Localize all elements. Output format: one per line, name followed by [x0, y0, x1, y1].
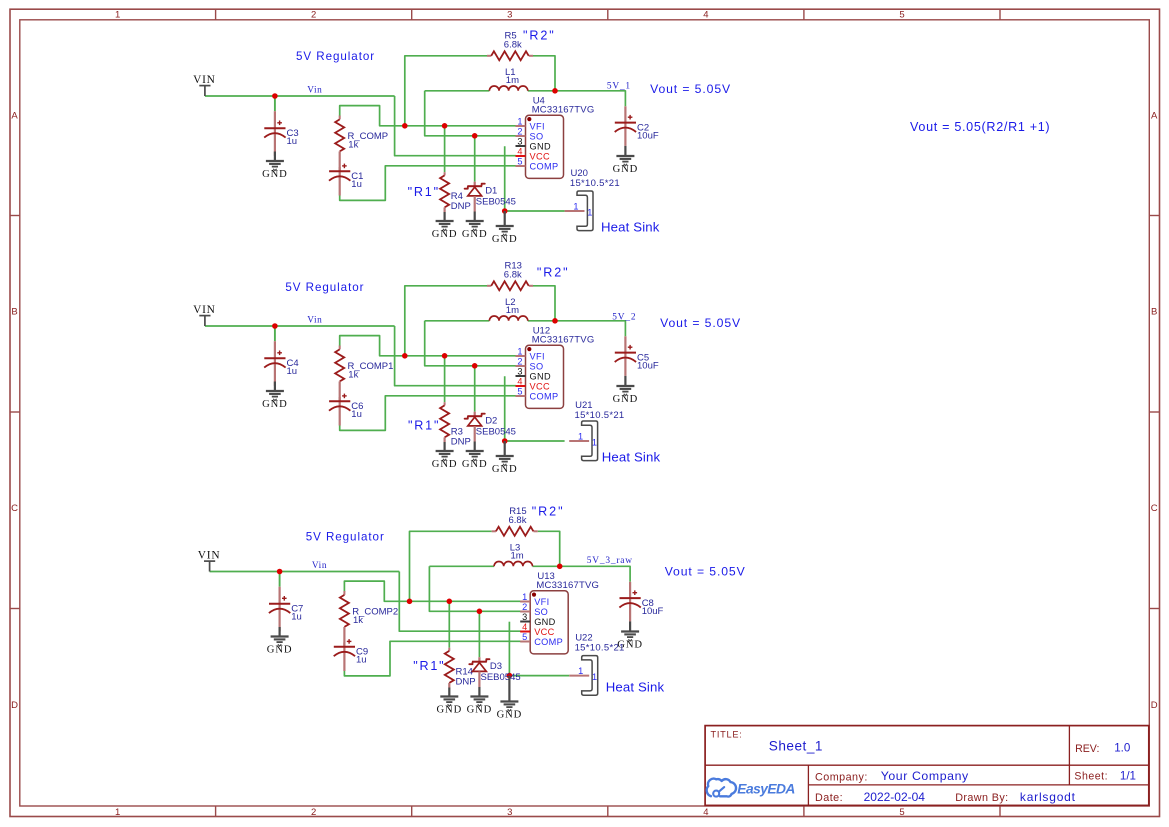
svg-text:5V_1: 5V_1: [607, 82, 631, 92]
svg-text:Vin: Vin: [312, 561, 327, 571]
svg-text:Vout = 5.05(R2/R1 +1): Vout = 5.05(R2/R1 +1): [910, 120, 1050, 134]
svg-text:1/1: 1/1: [1120, 769, 1136, 782]
svg-text:Vout = 5.05V: Vout = 5.05V: [665, 565, 746, 579]
svg-text:VFI: VFI: [530, 121, 545, 131]
svg-text:COMP: COMP: [530, 391, 559, 401]
svg-text:10uF: 10uF: [642, 606, 664, 617]
svg-text:4: 4: [703, 10, 708, 21]
svg-text:GND: GND: [436, 704, 462, 715]
svg-text:GND: GND: [432, 459, 458, 470]
svg-text:5V Regulator: 5V Regulator: [285, 281, 364, 294]
svg-text:GND: GND: [467, 704, 493, 715]
svg-text:1: 1: [587, 208, 592, 218]
svg-text:GND: GND: [432, 229, 458, 240]
svg-text:C: C: [11, 503, 18, 514]
svg-text:GND: GND: [462, 459, 488, 470]
svg-text:1m: 1m: [506, 305, 519, 316]
svg-text:SO: SO: [534, 607, 548, 617]
svg-text:GND: GND: [530, 141, 551, 151]
svg-text:1k: 1k: [348, 370, 358, 381]
svg-text:D: D: [1151, 700, 1158, 711]
svg-text:1u: 1u: [356, 655, 367, 666]
svg-text:1: 1: [578, 666, 583, 676]
svg-text:VFI: VFI: [534, 597, 549, 607]
svg-text:2: 2: [517, 356, 522, 366]
svg-text:DNP: DNP: [456, 676, 476, 687]
svg-text:3: 3: [507, 807, 512, 818]
svg-text:MC33167TVG: MC33167TVG: [536, 580, 599, 591]
svg-text:D2: D2: [485, 416, 497, 427]
svg-text:"R1": "R1": [408, 185, 440, 199]
svg-text:"R2": "R2": [532, 505, 565, 519]
svg-text:Heat Sink: Heat Sink: [602, 450, 661, 465]
svg-text:GND: GND: [492, 464, 518, 475]
svg-text:5: 5: [517, 156, 522, 166]
svg-text:6.8k: 6.8k: [504, 40, 522, 51]
svg-text:1u: 1u: [291, 612, 302, 623]
svg-text:VIN: VIN: [193, 304, 216, 316]
svg-text:5: 5: [522, 632, 527, 642]
svg-text:1: 1: [592, 672, 597, 682]
svg-text:VCC: VCC: [530, 151, 550, 161]
svg-text:3: 3: [507, 10, 512, 21]
svg-text:DNP: DNP: [451, 201, 471, 212]
svg-text:Your Company: Your Company: [881, 769, 969, 783]
svg-text:GND: GND: [462, 229, 488, 240]
svg-text:3: 3: [522, 612, 527, 622]
svg-text:5V_2: 5V_2: [612, 312, 636, 322]
svg-text:GND: GND: [262, 169, 288, 180]
svg-text:1: 1: [517, 116, 522, 126]
svg-text:Heat Sink: Heat Sink: [606, 680, 665, 695]
svg-text:GND: GND: [492, 234, 518, 245]
svg-text:Vout = 5.05V: Vout = 5.05V: [650, 82, 731, 96]
svg-text:karlsgodt: karlsgodt: [1020, 790, 1076, 804]
svg-text:4: 4: [703, 807, 708, 818]
svg-text:"R1": "R1": [408, 419, 440, 433]
svg-text:MC33167TVG: MC33167TVG: [532, 105, 595, 116]
svg-text:1u: 1u: [287, 136, 298, 147]
svg-text:6.8k: 6.8k: [504, 270, 522, 281]
svg-text:15*10.5*21: 15*10.5*21: [575, 643, 625, 654]
svg-text:2: 2: [522, 602, 527, 612]
svg-text:1: 1: [115, 807, 120, 818]
svg-text:C: C: [1151, 503, 1158, 514]
svg-text:Drawn By:: Drawn By:: [955, 792, 1008, 804]
svg-text:GND: GND: [262, 399, 288, 410]
svg-text:1: 1: [115, 10, 120, 21]
svg-text:Vin: Vin: [307, 315, 322, 325]
svg-text:COMP: COMP: [530, 161, 559, 171]
svg-text:VIN: VIN: [193, 74, 216, 86]
svg-text:REV:: REV:: [1075, 743, 1099, 755]
svg-text:SO: SO: [530, 361, 544, 371]
svg-text:D1: D1: [485, 186, 497, 197]
svg-text:GND: GND: [613, 164, 639, 175]
svg-text:GND: GND: [613, 394, 639, 405]
svg-text:2: 2: [517, 126, 522, 136]
svg-text:1u: 1u: [287, 366, 298, 377]
svg-text:5V_3_raw: 5V_3_raw: [587, 556, 633, 566]
svg-text:1u: 1u: [351, 409, 362, 420]
svg-text:GND: GND: [497, 709, 523, 720]
svg-text:Vin: Vin: [307, 85, 322, 95]
svg-text:Heat Sink: Heat Sink: [601, 220, 660, 235]
svg-text:VFI: VFI: [530, 351, 545, 361]
svg-text:SO: SO: [530, 131, 544, 141]
svg-text:1: 1: [522, 592, 527, 602]
svg-text:GND: GND: [267, 644, 293, 655]
svg-text:4: 4: [517, 146, 522, 156]
svg-text:5: 5: [517, 386, 522, 396]
svg-text:D3: D3: [490, 661, 502, 672]
svg-text:"R1": "R1": [413, 659, 445, 673]
svg-text:5V Regulator: 5V Regulator: [306, 531, 385, 544]
svg-text:MC33167TVG: MC33167TVG: [532, 335, 595, 346]
svg-text:D: D: [11, 700, 18, 711]
svg-text:VCC: VCC: [534, 627, 554, 637]
svg-text:VCC: VCC: [530, 381, 550, 391]
svg-text:10uF: 10uF: [637, 361, 659, 372]
svg-text:SEB0545: SEB0545: [476, 196, 516, 207]
svg-text:COMP: COMP: [534, 637, 563, 647]
svg-text:TITLE:: TITLE:: [711, 729, 743, 739]
svg-text:Company:: Company:: [815, 771, 868, 783]
svg-text:1k: 1k: [348, 140, 358, 151]
svg-text:SEB0545: SEB0545: [481, 672, 521, 683]
svg-text:VIN: VIN: [198, 550, 221, 562]
svg-text:Sheet:: Sheet:: [1074, 770, 1108, 782]
svg-text:2: 2: [311, 807, 316, 818]
svg-text:"R2": "R2": [537, 266, 570, 280]
svg-text:1: 1: [578, 431, 583, 441]
svg-text:B: B: [11, 307, 17, 318]
svg-text:1u: 1u: [351, 179, 362, 190]
svg-text:5: 5: [899, 10, 904, 21]
svg-text:6.8k: 6.8k: [509, 515, 527, 526]
svg-text:Vout = 5.05V: Vout = 5.05V: [660, 316, 741, 330]
svg-text:5V Regulator: 5V Regulator: [296, 50, 375, 63]
svg-text:SEB0545: SEB0545: [476, 426, 516, 437]
svg-text:2: 2: [311, 10, 316, 21]
svg-text:A: A: [1151, 110, 1158, 121]
svg-text:GND: GND: [534, 617, 555, 627]
svg-text:10uF: 10uF: [637, 131, 659, 142]
svg-text:A: A: [11, 110, 18, 121]
svg-text:EasyEDA: EasyEDA: [737, 782, 795, 797]
svg-text:5: 5: [899, 807, 904, 818]
svg-text:1.0: 1.0: [1114, 742, 1130, 755]
svg-text:1k: 1k: [353, 615, 363, 626]
svg-text:Sheet_1: Sheet_1: [769, 738, 823, 753]
svg-text:15*10.5*21: 15*10.5*21: [570, 178, 620, 189]
svg-text:15*10.5*21: 15*10.5*21: [575, 410, 625, 421]
svg-text:1: 1: [592, 438, 597, 448]
svg-text:"R2": "R2": [523, 29, 556, 43]
svg-text:4: 4: [522, 622, 527, 632]
svg-text:4: 4: [517, 376, 522, 386]
svg-text:DNP: DNP: [451, 436, 471, 447]
svg-text:3: 3: [517, 136, 522, 146]
svg-text:3: 3: [517, 366, 522, 376]
svg-text:GND: GND: [530, 371, 551, 381]
svg-text:1m: 1m: [511, 551, 524, 562]
svg-text:1: 1: [573, 201, 578, 211]
svg-text:1: 1: [517, 346, 522, 356]
svg-text:Date:: Date:: [815, 792, 843, 804]
svg-text:2022-02-04: 2022-02-04: [864, 790, 926, 804]
svg-text:B: B: [1151, 307, 1157, 318]
svg-text:1m: 1m: [506, 75, 519, 86]
